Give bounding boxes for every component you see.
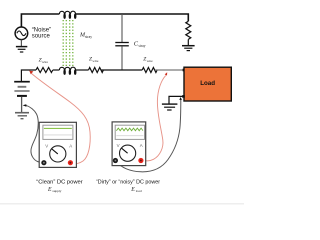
arrowhead red probe meter2	[165, 72, 168, 75]
svg-text:load: load	[136, 189, 142, 193]
resistor Z wire 2	[89, 68, 104, 73]
svg-text:A: A	[69, 143, 72, 148]
ground below battery	[15, 113, 29, 119]
svg-text:supply: supply	[52, 189, 61, 193]
label E supply	[47, 187, 62, 193]
svg-text:“Clean” DC power: “Clean” DC power	[36, 179, 82, 185]
battery B1	[14, 82, 30, 96]
svg-text:wire: wire	[147, 59, 154, 63]
wire Z2 to C junction to resistor Z3	[101, 69, 142, 71]
wire top rail right segment	[76, 14, 189, 21]
capacitor C stray leg upper	[121, 14, 123, 42]
wire Z3 to load	[155, 69, 184, 71]
junction dot load lower	[182, 95, 185, 98]
load block	[184, 67, 231, 101]
multimeter M1	[39, 122, 76, 167]
label M stray	[79, 32, 92, 39]
black probe wire meter2	[117, 100, 181, 172]
capacitor C stray leg lower	[121, 46, 123, 70]
svg-text:wire: wire	[92, 59, 99, 63]
svg-text:E: E	[47, 187, 52, 193]
svg-text:E: E	[130, 187, 135, 193]
wire load bottom to ground	[169, 96, 184, 103]
svg-text:source: source	[32, 34, 51, 40]
capacitor C stray	[115, 43, 129, 46]
resistor Z wire 3	[142, 68, 157, 73]
resistor R1 (top right)	[186, 21, 191, 39]
red probe wire meter1	[32, 74, 91, 164]
svg-text:wire: wire	[42, 60, 49, 64]
wire middle rail: corner to resistor Z1	[21, 70, 36, 82]
arrowhead black probe meter1	[23, 104, 27, 107]
svg-text:stray: stray	[85, 35, 92, 39]
mutual coupling flux dotted lines	[63, 20, 73, 66]
label Z wire 2	[89, 57, 99, 64]
wire L2 to resistor Z2	[76, 69, 89, 71]
label Z wire 1	[39, 58, 49, 64]
svg-text:A: A	[140, 143, 143, 148]
ground below load	[162, 104, 178, 110]
ground below R1	[182, 46, 195, 51]
label Z wire 3	[143, 56, 153, 63]
svg-text:V: V	[45, 143, 48, 148]
label "Noise" source	[32, 27, 51, 39]
svg-text:“Noise”: “Noise”	[32, 27, 51, 33]
resistor Z wire 1	[36, 68, 53, 73]
wire noise source to ground	[20, 40, 22, 47]
inductor L2 (lower winding)	[59, 67, 75, 74]
noise source V1	[15, 27, 28, 40]
svg-text:stray: stray	[139, 44, 146, 48]
wire top rail left segment	[21, 14, 59, 27]
wire R1 to ground	[187, 39, 189, 45]
svg-text:Load: Load	[200, 80, 215, 87]
label C stray	[134, 41, 146, 48]
wire Z1 to L2	[53, 69, 60, 71]
red probe wire meter2	[144, 75, 166, 160]
wire battery to ground	[21, 97, 23, 112]
ground below noise source	[16, 47, 27, 52]
arrowhead black probe meter2	[179, 97, 182, 100]
black probe wire meter1	[26, 105, 43, 162]
arrowhead red probe meter1	[29, 71, 33, 75]
svg-text:V: V	[117, 143, 120, 148]
page divider rule	[0, 203, 244, 205]
svg-text:“Dirty” or “noisy” DC power: “Dirty” or “noisy” DC power	[96, 179, 160, 185]
label E load	[130, 187, 142, 193]
junction dot load upper	[183, 69, 186, 72]
inductor L1 (top winding)	[59, 11, 75, 18]
multimeter M2	[112, 122, 146, 166]
